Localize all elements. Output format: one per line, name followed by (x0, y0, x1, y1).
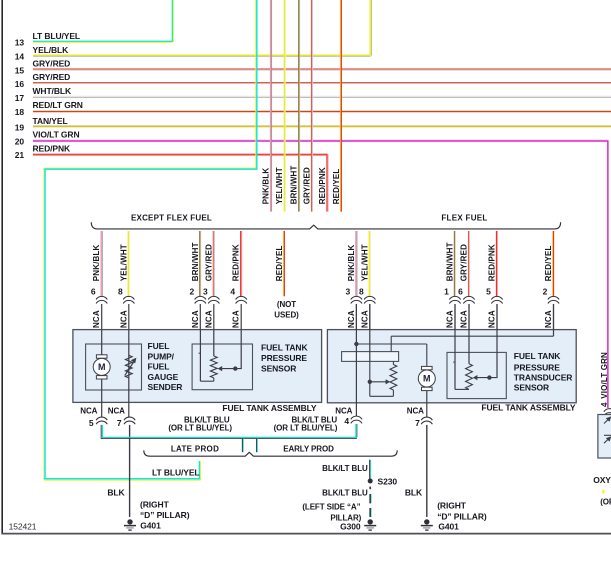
wire stub YEL/WHT (right group, pin 8) (368, 231, 370, 296)
svg-text:NCA: NCA (335, 407, 352, 416)
wire pin3 through module to pin4 (355, 304, 357, 416)
box fuel tank assembly (except flex fuel) (73, 330, 322, 403)
svg-text:(OR LT BLU/YEL): (OR LT BLU/YEL) (168, 423, 232, 432)
svg-text:WHT/BLK: WHT/BLK (33, 86, 72, 96)
wire stub GRY/RED (left group, pin 3) (212, 231, 214, 296)
box fuel tank assembly (flex fuel) (327, 330, 576, 403)
wire junction to motor (356, 343, 426, 345)
wire 20 VIO/LT GRN drop at right edge (607, 140, 609, 408)
svg-text:6: 6 (91, 287, 96, 297)
svg-text:4: 4 (600, 402, 609, 407)
svg-text:RED/PNK: RED/PNK (318, 167, 327, 204)
wire stub RED/YEL (left group, pin not used) (282, 231, 284, 296)
wire PNK/BLK vertical from top (270, 0, 272, 212)
wire stub BRN/WHT (left group, pin 2) (199, 231, 201, 296)
wire RED/YEL vertical from top (339, 0, 341, 212)
brace LATE PROD / EARLY PROD (144, 450, 397, 456)
motor M2 fuel pump (flex) (422, 366, 433, 369)
wire stub RED/PNK (right group, pin 5) (496, 231, 498, 296)
svg-text:FUEL TANK ASSEMBLY: FUEL TANK ASSEMBLY (481, 403, 576, 413)
svg-text:FUEL: FUEL (148, 341, 170, 351)
svg-text:M: M (98, 362, 106, 372)
svg-text:EARLY PROD: EARLY PROD (283, 445, 334, 454)
wire BLK pin7 to ground (129, 425, 131, 517)
resistor pressure transducer (466, 364, 473, 390)
wire pin8 to module (369, 304, 371, 361)
wire motor to pin7 (right) (426, 391, 428, 418)
wire 15 GRY/RED horizontal (33, 68, 611, 70)
svg-text:SENDER: SENDER (148, 382, 183, 392)
splice S230 (368, 479, 373, 484)
wire stub BRN/WHT (right group, pin 1) (454, 231, 456, 296)
ground G401 (right) (424, 519, 429, 524)
svg-text:BLK: BLK (107, 487, 125, 497)
svg-text:6: 6 (458, 287, 463, 297)
svg-text:PRESSURE: PRESSURE (514, 362, 560, 372)
wire BLK/LT BLU between pin5 and pin4 (101, 436, 357, 438)
svg-text:PRESSURE: PRESSURE (261, 353, 307, 363)
wire pin6 into motor (101, 330, 103, 356)
svg-text:FUEL: FUEL (148, 362, 170, 372)
wire BLK pin7 to ground (right) (426, 425, 428, 517)
svg-text:NCA: NCA (446, 310, 455, 328)
svg-text:YEL/WHT: YEL/WHT (360, 244, 369, 281)
connector oxygen sensor pin (604, 409, 611, 412)
svg-text:NCA: NCA (460, 310, 469, 328)
wire motor to pin5 (101, 379, 103, 417)
svg-text:(OR LT BLU/YEL): (OR LT BLU/YEL) (274, 423, 338, 432)
resistor fuel gauge sender (125, 355, 132, 378)
wire pin4 to sensor wiper (240, 330, 242, 369)
svg-text:GRY/RED: GRY/RED (33, 72, 71, 82)
ground G401 (left) (127, 519, 132, 524)
wire stub RED/YEL (right group, pin 2) (552, 231, 554, 296)
svg-text:FLEX FUEL: FLEX FUEL (441, 213, 487, 222)
svg-text:5: 5 (89, 418, 94, 428)
svg-text:BRN/WHT: BRN/WHT (191, 242, 200, 281)
svg-text:RED/PNK: RED/PNK (232, 244, 241, 281)
wire stub RED/PNK (left group, pin 4) (240, 231, 242, 296)
svg-text:LT BLU/YEL: LT BLU/YEL (33, 31, 80, 41)
svg-text:NCA: NCA (191, 310, 200, 328)
svg-text:2: 2 (189, 287, 194, 297)
wire 20 VIO/LT GRN horizontal (33, 139, 608, 141)
svg-text:(LEFT SIDE “A”: (LEFT SIDE “A” (302, 502, 360, 511)
inner box fuel pump / fuel gauge sender (86, 344, 142, 390)
wire pin1 to transducer low (454, 304, 456, 389)
svg-text:BLK/LT BLU: BLK/LT BLU (322, 464, 368, 473)
svg-text:GRY/RED: GRY/RED (302, 167, 311, 204)
resistor gauge sender (flex) (392, 361, 394, 364)
svg-text:RED/YEL: RED/YEL (275, 245, 284, 281)
wire pin6 to transducer top (468, 304, 470, 364)
wire 17 WHT/BLK horizontal (33, 95, 611, 97)
svg-text:(RIGHT: (RIGHT (437, 500, 467, 510)
svg-text:17: 17 (15, 93, 25, 103)
svg-text:NCA: NCA (488, 310, 497, 328)
wire BLK/LT BLU pin5 run (100, 425, 102, 439)
svg-text:13: 13 (15, 38, 25, 48)
svg-text:RED/PNK: RED/PNK (33, 143, 72, 153)
svg-text:BRN/WHT: BRN/WHT (446, 242, 455, 281)
svg-text:PUMP/: PUMP/ (148, 352, 175, 362)
svg-text:21: 21 (15, 150, 25, 160)
svg-text:PNK/BLK: PNK/BLK (92, 245, 101, 282)
svg-text:2: 2 (543, 287, 548, 297)
svg-text:YEL/WHT: YEL/WHT (275, 167, 284, 204)
svg-text:RED/PNK: RED/PNK (488, 244, 497, 281)
svg-text:152421: 152421 (9, 521, 37, 531)
svg-text:OXYGE: OXYGE (593, 475, 611, 485)
node LT BLU/YEL route from top (to LATE PROD) (255, 0, 257, 168)
ground G300 (368, 519, 373, 524)
svg-text:4: 4 (230, 287, 235, 297)
svg-text:4: 4 (344, 416, 349, 426)
oxygen sensor internal symbol (604, 418, 610, 423)
wire 21 RED/PNK drop (326, 154, 328, 211)
svg-text:7: 7 (117, 418, 122, 428)
wire 16 GRY/RED horizontal (33, 82, 611, 84)
svg-text:USED): USED) (274, 310, 299, 319)
svg-text:8: 8 (359, 287, 364, 297)
svg-text:BLK: BLK (405, 487, 423, 497)
wire stub GRY/RED (right group, pin 6) (468, 231, 470, 296)
svg-text:BLK/LT BLU: BLK/LT BLU (322, 488, 368, 497)
diagram bottom border (1, 533, 611, 535)
svg-text:18: 18 (15, 107, 25, 117)
wire BLK/LT BLU early prod drop (369, 460, 371, 481)
inner box fuel tank pressure transducer sensor (447, 352, 506, 398)
wire pin2 RED/YEL to module (553, 304, 555, 336)
svg-text:15: 15 (15, 65, 25, 75)
wire pin3 to sensor top (213, 330, 215, 356)
wire stub YEL/WHT (left group, pin 8) (127, 231, 129, 296)
svg-text:TAN/YEL: TAN/YEL (33, 116, 68, 126)
svg-text:G300: G300 (340, 521, 361, 531)
svg-text:3: 3 (346, 287, 351, 297)
svg-text:(OR: (OR (600, 497, 611, 506)
wire BRN/WHT vertical from top (298, 0, 300, 212)
wire drop to LATE PROD brace (241, 438, 243, 452)
wire module to sender wiper (369, 361, 371, 381)
svg-text:VIO/LT GRN: VIO/LT GRN (33, 130, 80, 140)
wire stub PNK/BLK (right group, pin 3) (355, 231, 357, 296)
svg-text:BRN/WHT: BRN/WHT (290, 165, 299, 204)
wire pin2 to sensor low (199, 330, 201, 382)
svg-text:SENSOR: SENSOR (514, 382, 549, 392)
svg-text:NCA: NCA (204, 310, 213, 328)
brace EXCEPT FLEX FUEL / FLEX FUEL (91, 222, 560, 229)
tick nub pressure sensor wire (left box) (199, 352, 201, 354)
svg-text:16: 16 (15, 79, 25, 89)
svg-text:EXCEPT FLEX FUEL: EXCEPT FLEX FUEL (131, 213, 212, 222)
svg-text:PNK/BLK: PNK/BLK (347, 245, 356, 282)
svg-text:FUEL TANK: FUEL TANK (514, 351, 561, 361)
svg-text:NCA: NCA (347, 310, 356, 328)
svg-text:20: 20 (15, 136, 25, 146)
box oxygen sensor (partial) (598, 415, 611, 459)
wire YEL/WHT vertical from top (283, 0, 285, 212)
svg-text:M: M (423, 374, 431, 384)
wire stub PNK/BLK (left group, pin 6) (100, 231, 102, 296)
wire pin8 through sender (128, 330, 130, 418)
svg-text:VIO/LT GRN: VIO/LT GRN (600, 352, 609, 399)
diagram left border (1, 0, 3, 534)
motor M1 fuel pump (96, 355, 107, 358)
svg-text:GAUGE: GAUGE (148, 372, 179, 382)
svg-text:G401: G401 (438, 521, 459, 531)
wire GRY/RED vertical from top (311, 0, 313, 212)
svg-text:NCA: NCA (92, 310, 101, 328)
wire dashed BLK/LT BLU S230 to G300 (369, 487, 371, 490)
svg-text:8: 8 (118, 287, 123, 297)
svg-text:PNK/BLK: PNK/BLK (261, 168, 270, 205)
wire pin5 to transducer wiper (496, 304, 498, 378)
svg-text:NCA: NCA (544, 310, 553, 328)
svg-text:NCA: NCA (407, 407, 424, 416)
svg-text:RED/YEL: RED/YEL (544, 245, 553, 281)
svg-text:“D” PILLAR): “D” PILLAR) (437, 512, 487, 522)
wire stub yellow (right edge) (603, 490, 605, 494)
svg-text:RED/YEL: RED/YEL (332, 169, 341, 205)
svg-text:3: 3 (203, 287, 208, 297)
arrow gauge sender wiper (125, 361, 135, 376)
svg-text:S230: S230 (378, 476, 398, 486)
inner box fuel tank pressure sensor (192, 344, 252, 390)
svg-text:NCA: NCA (80, 407, 97, 416)
svg-text:NCA: NCA (119, 310, 128, 328)
svg-text:YEL/WHT: YEL/WHT (119, 244, 128, 281)
svg-text:TRANSDUCER: TRANSDUCER (514, 373, 573, 383)
wire BLK/LT BLU pin4 drop (355, 424, 357, 437)
svg-text:NCA: NCA (360, 310, 369, 328)
wire 21 RED/PNK horizontal (33, 153, 328, 155)
wire 13 LT BLU/YEL riser to top edge (171, 0, 173, 42)
svg-text:1: 1 (444, 287, 449, 297)
svg-text:(RIGHT: (RIGHT (140, 499, 170, 509)
wire 14 YEL/BLK riser to top edge (369, 0, 371, 56)
svg-text:7: 7 (415, 418, 420, 428)
svg-text:19: 19 (15, 123, 25, 133)
wire 19 TAN/YEL horizontal (33, 125, 611, 127)
svg-text:SENSOR: SENSOR (261, 364, 296, 374)
svg-text:LT BLU/YEL: LT BLU/YEL (152, 467, 199, 477)
svg-text:RED/LT GRN: RED/LT GRN (33, 100, 83, 110)
svg-text:G401: G401 (140, 521, 161, 531)
svg-text:5: 5 (486, 287, 491, 297)
svg-text:GRY/RED: GRY/RED (460, 244, 469, 281)
svg-text:NCA: NCA (232, 310, 241, 328)
wire drop to EARLY PROD brace (256, 438, 258, 452)
svg-text:(NOT: (NOT (277, 300, 296, 309)
svg-text:14: 14 (15, 52, 25, 62)
wire 14 YEL/BLK horizontal (33, 54, 371, 56)
resistor pressure sensor (210, 356, 217, 378)
svg-text:GRY/RED: GRY/RED (204, 244, 213, 281)
wire 13 LT BLU/YEL horizontal (33, 40, 173, 42)
svg-text:FUEL TANK ASSEMBLY: FUEL TANK ASSEMBLY (222, 403, 317, 413)
inner rect pump module (342, 352, 399, 362)
svg-text:NCA: NCA (108, 407, 125, 416)
wire 18 RED/LT GRN horizontal (33, 110, 611, 112)
svg-text:“D” PILLAR): “D” PILLAR) (140, 510, 190, 520)
svg-text:FUEL TANK: FUEL TANK (261, 343, 308, 353)
svg-text:LATE PROD: LATE PROD (171, 445, 219, 454)
svg-text:YEL/BLK: YEL/BLK (33, 45, 70, 55)
svg-text:GRY/RED: GRY/RED (33, 59, 71, 69)
tick nub transducer wire (right box) (453, 361, 455, 363)
